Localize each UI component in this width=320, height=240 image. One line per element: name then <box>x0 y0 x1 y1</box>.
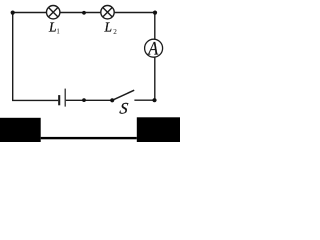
svg-text:L: L <box>104 19 113 34</box>
node top-left corner <box>11 11 15 15</box>
switch S lever <box>112 90 134 100</box>
wire top-left to L1 <box>13 12 47 14</box>
battery short thick plate (negative) <box>58 95 60 105</box>
svg-text:A: A <box>147 37 158 58</box>
bottom right black bar <box>137 117 180 142</box>
label L1 <box>48 19 60 35</box>
battery long thin plate (positive) <box>64 89 66 107</box>
svg-text:1: 1 <box>56 29 59 36</box>
bottom left black bar <box>0 118 41 142</box>
node between L1 and L2 <box>82 11 86 15</box>
svg-text:L: L <box>48 19 57 34</box>
ammeter A <box>145 37 163 58</box>
wire switch contact to bottom-right corner <box>134 99 154 101</box>
wire right side vertical <box>154 13 156 101</box>
node top-right corner <box>153 11 157 15</box>
wire battery to switch <box>66 99 112 101</box>
node switch pivot <box>110 98 114 102</box>
label L2 <box>104 19 118 36</box>
lamp L1 <box>47 6 60 19</box>
wire L1 to L2 <box>60 12 100 14</box>
svg-text:2: 2 <box>113 28 117 36</box>
node bottom-right corner <box>152 98 156 102</box>
wire bottom-left to battery <box>12 99 58 101</box>
bottom connecting line <box>41 137 137 139</box>
node bottom wire between battery and switch <box>82 98 86 102</box>
wire left side vertical <box>12 13 14 101</box>
lamp L2 <box>101 6 114 19</box>
wire L2 to top-right corner <box>115 12 156 14</box>
